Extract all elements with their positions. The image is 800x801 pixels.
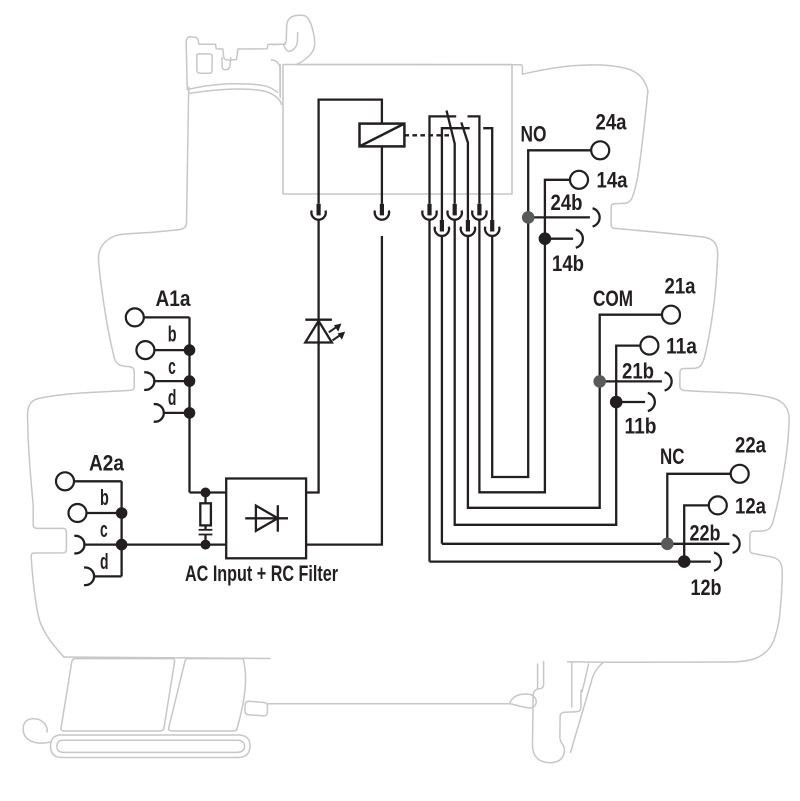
DIN rail bottom flange outer xyxy=(51,735,251,758)
bridge diode triangle xyxy=(256,506,278,531)
foot second diagonal xyxy=(582,664,589,692)
housing notch 24b/14b xyxy=(611,203,625,228)
capacitor C1 plate 1 xyxy=(199,529,213,531)
socket w2 row B xyxy=(435,220,449,236)
DIN rail long lower line xyxy=(268,703,510,705)
socket w1 xyxy=(422,204,436,220)
LED arrowhead 2 xyxy=(338,332,346,340)
contact 1 right fixed xyxy=(468,116,480,203)
relay coil K1 xyxy=(360,124,405,147)
21b tap wire xyxy=(600,380,662,382)
A2 terminal b circle xyxy=(69,504,87,522)
svg-text:c: c xyxy=(100,517,108,542)
foot top edge right of clip xyxy=(568,662,604,707)
socket coil right xyxy=(375,204,389,220)
NO 24 bus: 24a wire, down, U1 bottom, up w6 xyxy=(492,150,591,477)
housing right edge COM block xyxy=(693,254,718,368)
A2 socket c xyxy=(74,536,84,554)
svg-text:NC: NC xyxy=(660,444,685,469)
contact 1 blade and pole xyxy=(447,111,455,204)
11b socket arc xyxy=(648,393,655,411)
hook curl inner xyxy=(284,33,298,52)
wire box top left xyxy=(190,491,227,493)
junction dot A2 b xyxy=(116,507,128,519)
svg-text:14a: 14a xyxy=(597,168,629,193)
DIN rail bottom flange inner xyxy=(57,740,245,752)
A1 terminal d wire xyxy=(164,412,190,414)
A2 terminal a wire xyxy=(74,480,122,482)
contact 2 blade and pole xyxy=(461,122,468,219)
DIN rail panel 1 xyxy=(61,659,175,731)
svg-text:14b: 14b xyxy=(552,251,584,276)
A1 terminal c wire xyxy=(154,380,189,382)
DIN rail left curl xyxy=(23,719,50,743)
11a terminal circle xyxy=(640,337,658,355)
junction dot C bottom xyxy=(201,540,211,550)
14a terminal circle xyxy=(570,171,588,189)
latch pocket xyxy=(222,58,231,70)
capacitor C1 plate 2 xyxy=(199,534,213,536)
junction dot 11b xyxy=(610,396,623,409)
housing top edge xyxy=(296,65,523,75)
NC w2 vertical xyxy=(441,236,443,544)
coil diagonal xyxy=(360,124,405,147)
svg-text:22a: 22a xyxy=(735,433,767,458)
wire coil top loop xyxy=(319,100,382,204)
junction dot 14b xyxy=(539,232,552,245)
socket coil left xyxy=(311,204,325,220)
21b socket arc xyxy=(665,372,672,390)
24b tap wire xyxy=(528,216,590,218)
12b socket arc xyxy=(714,553,721,571)
latch inner curve xyxy=(271,60,280,96)
relay unit gray box xyxy=(283,65,512,195)
A1 terminal a circle xyxy=(126,308,144,326)
LED arrow 2 xyxy=(333,335,341,340)
body top edge under latch xyxy=(189,89,282,105)
DIN rail panel 2 xyxy=(169,659,246,731)
clip hook body xyxy=(532,662,581,763)
LED wire lower to box xyxy=(306,343,319,493)
junction dot A1 b xyxy=(184,344,196,356)
junction dot 22b (gray) xyxy=(661,538,674,551)
resistor R1 lead top xyxy=(204,493,206,504)
bridge diode through line xyxy=(245,517,288,519)
svg-text:b: b xyxy=(168,322,177,347)
housing short vertical at box left xyxy=(279,65,281,98)
12a terminal circle xyxy=(709,496,727,514)
clip pad blob xyxy=(510,694,537,708)
21a terminal circle xyxy=(662,306,680,324)
svg-text:AC Input + RC Filter: AC Input + RC Filter xyxy=(185,561,338,586)
22b socket arc xyxy=(733,535,740,553)
svg-text:d: d xyxy=(100,549,109,574)
contact 2 right fixed xyxy=(483,128,492,220)
A1 terminal a wire xyxy=(144,316,190,318)
junction dot A1 c xyxy=(184,375,196,387)
A2 terminal a circle xyxy=(56,472,74,490)
LED cathode bar xyxy=(305,319,332,321)
bridge diode bar xyxy=(277,505,279,532)
LED arrow 1 xyxy=(329,327,337,332)
DIN rail right end piece xyxy=(245,701,268,716)
14b tap wire xyxy=(545,238,573,240)
housing foot diagonal xyxy=(571,662,604,752)
main bottom wire xyxy=(122,543,227,545)
socket w5 xyxy=(472,204,486,220)
A2 socket d xyxy=(84,568,94,586)
hook curl outer xyxy=(272,15,314,64)
COM 11 bus: 11a wire, down, U4 bottom, up w3 xyxy=(455,220,641,525)
wire box bottom to coil return xyxy=(306,236,382,545)
contact 2 left fixed xyxy=(442,128,470,220)
plug-socket symbols row A xyxy=(311,204,499,236)
A1 terminal b wire xyxy=(154,349,189,351)
svg-text:b: b xyxy=(100,485,109,510)
clip slot line xyxy=(537,664,539,688)
NO 14 bus: 14a wire, down, U2 bottom, up w5 xyxy=(479,180,570,493)
socket w6 row B xyxy=(485,220,499,236)
svg-text:d: d xyxy=(168,385,177,410)
svg-text:12b: 12b xyxy=(691,575,722,600)
svg-text:24a: 24a xyxy=(596,110,628,135)
NC 22 bottom wire U5 xyxy=(442,543,730,545)
coil-contact mechanical link (dashed) xyxy=(404,134,451,136)
housing sweep to COM block xyxy=(613,228,717,254)
svg-text:22b: 22b xyxy=(690,521,721,546)
svg-text:12a: 12a xyxy=(735,494,767,519)
svg-text:21b: 21b xyxy=(622,359,654,384)
COM 21 bus: 21a wire, down, U3 bottom, up w4 xyxy=(468,236,662,508)
24a terminal circle xyxy=(591,141,609,159)
24b socket arc xyxy=(593,208,600,226)
A1 socket d xyxy=(154,404,164,422)
LED D1 vertical wire upper xyxy=(317,220,319,345)
housing right edge upper block xyxy=(626,91,648,203)
housing notch 21b/11b xyxy=(680,368,693,390)
resistor R1 xyxy=(200,503,211,525)
DIN rail top edge xyxy=(64,657,271,659)
junction dot 12b xyxy=(678,555,691,568)
svg-text:A1a: A1a xyxy=(156,286,192,311)
svg-text:24b: 24b xyxy=(551,190,583,215)
svg-text:COM: COM xyxy=(593,286,633,311)
junction dot 24b (gray) xyxy=(522,211,535,224)
svg-text:NO: NO xyxy=(521,122,547,147)
housing left edge upper body xyxy=(187,88,189,224)
housing notch 22b/12b xyxy=(750,531,761,553)
NC w1 vertical xyxy=(428,220,430,562)
11b tap wire xyxy=(616,401,645,403)
housing A1 block left side with notch xyxy=(27,223,186,657)
NC 12a wire down to junction xyxy=(684,505,709,561)
capacitor lead bottom xyxy=(204,535,206,545)
svg-text:11a: 11a xyxy=(666,334,698,359)
NC 22a wire down to junction xyxy=(667,474,731,544)
A2 terminal b wire xyxy=(86,512,121,514)
LED triangle xyxy=(305,321,332,343)
socket w4 row B xyxy=(461,220,475,236)
A1 bus vertical xyxy=(188,317,190,492)
junction dot R top xyxy=(201,488,211,498)
svg-text:11b: 11b xyxy=(625,414,657,439)
latch outline xyxy=(186,37,285,90)
resistor to capacitor lead xyxy=(204,525,206,529)
svg-text:A2a: A2a xyxy=(89,451,125,476)
housing top-right dome xyxy=(523,65,648,91)
latch bottom edge xyxy=(187,84,277,93)
A1 socket c xyxy=(144,372,154,390)
housing sweep to NC block xyxy=(683,390,789,420)
socket w3 xyxy=(447,204,461,220)
junction dot 21b (gray) xyxy=(593,375,606,388)
A2 bus vertical xyxy=(120,481,122,576)
A1 terminal b circle xyxy=(136,341,154,359)
contact 1 left fixed xyxy=(430,116,457,203)
A2 terminal d wire xyxy=(94,575,122,577)
NC 12 bottom wire U6 xyxy=(430,560,711,562)
22a terminal circle xyxy=(731,465,749,483)
AC input box xyxy=(226,479,306,559)
svg-text:c: c xyxy=(168,354,176,379)
wire coil bottom xyxy=(381,146,383,203)
14b socket arc xyxy=(576,230,583,248)
junction dot A2 c xyxy=(116,539,128,551)
LED arrowhead 1 xyxy=(334,324,342,332)
svg-text:21a: 21a xyxy=(665,274,697,299)
housing right edge NC block xyxy=(761,420,789,531)
latch hole xyxy=(197,54,212,74)
housing NC lower right corner xyxy=(604,553,783,662)
junction dot A1 d xyxy=(184,407,196,419)
A2 terminal c wire xyxy=(84,543,121,545)
